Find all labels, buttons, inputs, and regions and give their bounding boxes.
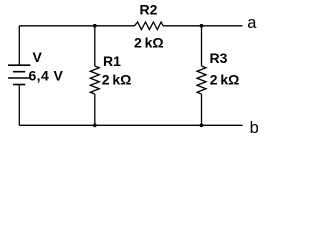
- battery V plate long lower: [8, 77, 30, 79]
- wire R3 branch top: [201, 26, 203, 66]
- svg-text:2 kΩ: 2 kΩ: [134, 34, 164, 50]
- wire top rail left (battery to R2): [19, 25, 134, 27]
- svg-text:6,4 V: 6,4 V: [29, 67, 64, 83]
- wire R3 branch bottom: [201, 94, 203, 125]
- junction bottom R1 node: [93, 123, 97, 127]
- junction top R1 node: [93, 24, 97, 28]
- wire R1 branch top: [94, 26, 96, 66]
- svg-text:V: V: [33, 49, 43, 65]
- wire top rail right (R2 to node a): [163, 25, 242, 27]
- wire battery branch top: [18, 26, 20, 65]
- svg-text:R3: R3: [210, 50, 228, 66]
- junction bottom R3 node (node b): [200, 123, 204, 127]
- wire bottom rail: [19, 124, 242, 126]
- resistor R3 (zigzag): [197, 66, 206, 94]
- battery V plate long top: [8, 64, 30, 66]
- svg-text:2 kΩ: 2 kΩ: [102, 72, 132, 88]
- wire R1 branch bottom: [94, 94, 96, 125]
- battery V plate short upper: [13, 71, 25, 73]
- svg-text:2 kΩ: 2 kΩ: [210, 71, 240, 87]
- svg-text:b: b: [250, 119, 259, 137]
- wire battery branch bottom: [18, 85, 20, 126]
- svg-text:R1: R1: [103, 53, 121, 69]
- svg-text:a: a: [247, 14, 257, 32]
- svg-text:R2: R2: [140, 2, 158, 18]
- resistor R1 (zigzag): [90, 66, 99, 94]
- resistor R2 (zigzag): [135, 22, 164, 30]
- battery V plate short bottom: [13, 84, 25, 86]
- junction top R3 node (node a): [200, 24, 204, 28]
